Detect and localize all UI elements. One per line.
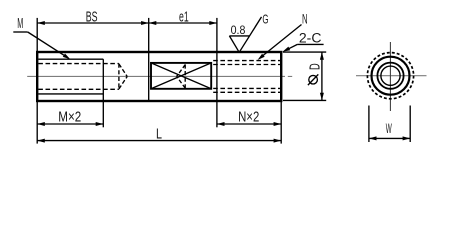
phi symbol of phiD [308,74,318,85]
knurl diagonal 2 [151,63,211,89]
extension line phiD top [283,51,326,53]
arrow Mx2 left [37,122,45,126]
extension line W right [409,106,411,143]
dimension line W [369,137,410,139]
2-C underline [297,43,323,45]
body outline [37,52,281,101]
svg-text:D: D [306,63,323,70]
dimension line BS e1 [37,22,217,24]
extension line phiD bottom [283,99,326,101]
arrow L left [37,139,45,143]
dimension line Mx2 [37,123,103,125]
left drill bottom line [118,64,120,90]
svg-text:N×2: N×2 [238,110,259,126]
M leader line [28,32,66,57]
extension line BS/e1 middle [148,18,150,52]
svg-text:M×2: M×2 [58,110,81,126]
end view thread major circle [377,63,403,89]
arrow e1 right [209,21,217,25]
arrow W right [403,136,411,140]
left thread end line / Mx2 extension [102,59,104,127]
extension line e1 right [216,18,218,52]
arrow W left [369,136,377,140]
section boundary right [216,52,218,101]
svg-text:M: M [17,16,23,32]
arrow Mx2 right [96,122,104,126]
centerline of side view [27,75,292,77]
left thread solid line bottom [38,93,103,95]
extension line right lower [280,101,282,144]
dimension line phiD [321,52,323,100]
right drill cone [177,65,186,88]
dimension line Nx2 [217,123,281,125]
arrow e1 left [149,21,157,25]
section boundary left [148,52,150,101]
svg-text:e1: e1 [179,9,189,25]
right drill bottom line [184,64,186,88]
N leader arrow [258,54,265,60]
knurl diagonal 1 [151,63,211,89]
left thread dashed line bottom [38,88,119,90]
extension line BS left [36,18,38,51]
2-C leader line [287,44,298,49]
extension line Nx2 left lower [216,101,218,127]
svg-text:W: W [386,120,392,136]
M leader arrow [63,54,71,60]
arrow phiD down [320,93,324,101]
arrow L right [274,139,282,143]
N leader line [262,25,302,57]
end view thread minor circle [381,66,400,85]
arrow BS right [141,21,149,25]
left thread solid line top [38,58,103,60]
2-C leader arrow [283,47,291,52]
end view horizontal centerline [356,75,427,77]
svg-text:L: L [156,127,162,143]
svg-text:G: G [262,13,268,27]
dimension line L [37,140,281,142]
svg-text:BS: BS [86,9,98,25]
left drill cone [119,64,127,89]
arrow phiD up [320,52,324,60]
left thread dashed line top [38,63,119,65]
surface finish symbol [229,17,261,52]
arrow BS left [37,21,45,25]
end view outer solid circle [372,57,410,95]
arrow Nx2 right [274,122,282,126]
svg-text:0.8: 0.8 [231,23,246,37]
svg-text:N: N [302,12,308,27]
extension line L left lower [36,101,38,144]
arrow Nx2 left [217,122,225,126]
extension line W left [368,106,370,143]
end view outer dashed circle [367,53,413,99]
right thread dashed lines [213,61,280,93]
M leader shoulder [13,31,27,33]
end view vertical centerline [389,42,391,111]
knurl box [151,63,211,89]
